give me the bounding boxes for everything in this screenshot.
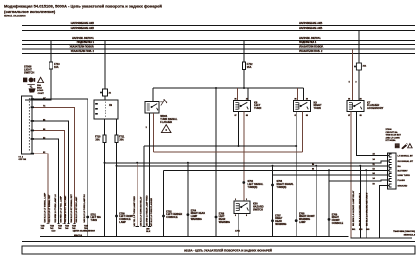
- svg-text:2: 2: [246, 199, 247, 201]
- svg-text:E706: E706: [219, 213, 225, 215]
- wire switch pin2 to x74.5 down: [34, 107, 75, 224]
- svg-text:AND LT CONN: AND LT CONN: [386, 136, 401, 139]
- node S703 right signal turn: [271, 184, 274, 187]
- warning triangle below flasher: [161, 125, 171, 133]
- svg-text:TURN: TURN: [314, 106, 321, 110]
- switch contact blob: [29, 88, 36, 92]
- svg-text:5: 5: [246, 215, 247, 217]
- wire x329 drop from H5: [328, 170, 330, 236]
- svg-text:86: 86: [312, 169, 314, 171]
- svg-text:LEFT: LEFT: [219, 216, 225, 218]
- bus B battery voltage: [22, 30, 415, 32]
- svg-text:REAR: REAR: [275, 220, 282, 223]
- ground bus right: [351, 237, 413, 239]
- svg-text:LEFT FRONT: LEFT FRONT: [119, 216, 134, 218]
- fuse F710 value label: [95, 136, 101, 142]
- svg-text:85: 85: [246, 115, 248, 117]
- light switch S7006 body: [22, 96, 33, 154]
- fuse F713: [49, 62, 52, 69]
- svg-text:SE/9015 -UN-10JAN03: SE/9015 -UN-10JAN03: [4, 14, 26, 17]
- relay K8 coil: [235, 103, 239, 110]
- svg-text:MAX: MAX: [37, 87, 42, 90]
- wire x366 drop from H5: [365, 170, 367, 238]
- svg-text:TM4574BM (15MAY03): TM4574BM (15MAY03): [393, 230, 415, 233]
- svg-text:НАПРЯЖЕНИЕ АКБ: НАПРЯЖЕНИЕ АКБ: [71, 22, 94, 25]
- svg-text:НАПРЯЖ. ВКЛЮЧ.: НАПРЯЖ. ВКЛЮЧ.: [72, 37, 94, 40]
- svg-text:LAMP: LAMP: [191, 215, 198, 218]
- connector block X7306 body: [388, 153, 397, 189]
- svg-text:E709: E709: [332, 214, 338, 216]
- svg-text:TAB: TAB: [50, 224, 55, 227]
- wire H3 to block pin2: [105, 161, 390, 163]
- wire switch pin3 to x68.5 down: [34, 121, 69, 224]
- relay K7 pin numbers: [348, 99, 361, 117]
- wire number ticks on x316: [312, 163, 315, 171]
- svg-text:SWITCH: SWITCH: [24, 70, 34, 74]
- svg-text:CONSOLE: CONSOLE: [332, 223, 344, 225]
- relay K30 coil: [236, 203, 240, 210]
- svg-text:530 RED 2.0 LT TAIL LAMP: 530 RED 2.0 LT TAIL LAMP: [60, 196, 63, 223]
- svg-text:УКАЗАТЕЛИ ПОВ. 2: УКАЗАТЕЛИ ПОВ. 2: [299, 50, 323, 53]
- block pin marks: [95, 103, 98, 115]
- svg-text:LAMP: LAMP: [299, 221, 306, 224]
- wire connector X1 to block: [104, 96, 106, 100]
- wire fuse F711 down: [116, 143, 118, 237]
- harness note text: [386, 129, 402, 142]
- fuse F713 value label: [54, 63, 60, 69]
- svg-text:BLK: BLK: [146, 231, 151, 233]
- svg-text:НАПРЯЖЕНИЕ АКБ: НАПРЯЖЕНИЕ АКБ: [299, 22, 322, 25]
- svg-text:534 BLK 2.0 RT SIGNAL RET: 534 BLK 2.0 RT SIGNAL RET: [70, 194, 73, 223]
- wire x137.2 drop from H3: [136, 163, 138, 227]
- svg-text:565 BLK 1.0 GROUND RETURN W: 565 BLK 1.0 GROUND RETURN W: [366, 193, 368, 226]
- svg-text:15A: 15A: [37, 84, 41, 87]
- svg-text:141 YEL 1.0 TURN LAMP FEED: 141 YEL 1.0 TURN LAMP FEED: [133, 196, 136, 227]
- relay K7 coil: [349, 103, 353, 110]
- warning triangle at light switch: [37, 76, 44, 83]
- junction H1/K9: [295, 145, 297, 147]
- node E709: [328, 218, 331, 221]
- wire block to fuse F710: [104, 119, 106, 135]
- node E708: [295, 219, 298, 222]
- wire fuse F710 down: [104, 143, 106, 237]
- svg-text:561 BRN 1.0 HAZARD LAMP RELAY: 561 BRN 1.0 HAZARD LAMP RELAY: [352, 190, 355, 226]
- svg-text:THIS IS AN EXT: THIS IS AN EXT: [386, 134, 402, 137]
- wire switch pin6 to x48 down: [34, 154, 48, 224]
- wire fuse F713 to switch corner: [25, 69, 51, 100]
- wire H4 to block pin3: [117, 165, 390, 167]
- svg-text:E702: E702: [166, 211, 172, 213]
- svg-text:FLASHER: FLASHER: [160, 121, 172, 124]
- svg-text:9015A - ЦЕПЬ УКАЗАТЕЛЕЙ ПОВОРО: 9015A - ЦЕПЬ УКАЗАТЕЛЕЙ ПОВОРОТА И ЗАДНИ…: [184, 249, 272, 253]
- node S702 left signal turn: [242, 181, 245, 184]
- svg-text:CONSOLE: CONSOLE: [166, 217, 178, 219]
- block pin labels: [398, 154, 414, 187]
- svg-text:87: 87: [235, 115, 237, 117]
- wire K8 pin87 down corner to x143: [144, 111, 239, 146]
- relay K8 pin numbers: [235, 99, 248, 117]
- svg-text:УКАЗАТЕЛИ ПОВ. 2: УКАЗАТЕЛИ ПОВ. 2: [71, 50, 95, 53]
- brown distribution wire H2: [153, 151, 302, 153]
- svg-text:(сигнальное исполнение): (сигнальное исполнение): [4, 9, 56, 14]
- node E700: [115, 215, 118, 218]
- svg-text:RIGHT FRONT: RIGHT FRONT: [299, 216, 315, 218]
- svg-text:TURN: TURN: [91, 220, 98, 222]
- svg-text:TAB: TAB: [84, 224, 89, 227]
- svg-text:521 BLK 2.0 LT SIGNAL RET: 521 BLK 2.0 LT SIGNAL RET: [48, 194, 51, 223]
- icon book: [395, 143, 400, 148]
- junction feed/E706 drop: [215, 87, 217, 89]
- svg-text:520 BLK 2.0 LT SIGNAL LAMP: 520 BLK 2.0 LT SIGNAL LAMP: [43, 192, 46, 222]
- switch lever arrow icon: [28, 85, 35, 88]
- relay K7 box: [347, 100, 364, 111]
- fuse F711 value label: [119, 136, 125, 142]
- wire K7 pin87 brown down to ground bus: [350, 111, 352, 238]
- wire bus B down to connector X14: [358, 31, 360, 64]
- svg-text:1: 1: [235, 199, 236, 201]
- svg-text:TAB: TAB: [65, 224, 70, 227]
- svg-text:86: 86: [348, 99, 350, 101]
- title block box: [22, 246, 415, 254]
- wire connector X14 to K7: [358, 70, 360, 100]
- junction H1/K8: [238, 145, 240, 147]
- svg-text:НАПРЯЖ. ВКЛЮЧ.: НАПРЯЖ. ВКЛЮЧ.: [299, 37, 321, 40]
- svg-text:RH SIGNAL BT: RH SIGNAL BT: [398, 160, 414, 163]
- svg-text:LAMP: LAMP: [119, 221, 126, 224]
- wire E702 drop from H5 corner: [163, 170, 165, 236]
- svg-text:LH SIGNAL BT: LH SIGNAL BT: [398, 154, 414, 157]
- svg-text:SE/9015A-8: SE/9015A-8: [404, 234, 416, 237]
- wire bus C down to fuse F712: [243, 41, 245, 63]
- fuse F711: [115, 135, 118, 143]
- relay K30 label: [253, 202, 264, 211]
- terminal ticks staircase wires: [46, 224, 151, 227]
- svg-text:CIRCUIT NA: CIRCUIT NA: [386, 131, 399, 134]
- svg-text:LOAD: LOAD: [37, 89, 44, 92]
- relay K9 pin numbers: [295, 99, 308, 117]
- relay K8 label: [254, 101, 261, 110]
- light switch icon cluster: [23, 78, 35, 83]
- svg-text:30: 30: [360, 99, 362, 101]
- svg-text:ЦЕПИ ЗАЗЕМЛЕНИЯ: ЦЕПИ ЗАЗЕМЛЕНИЯ: [73, 230, 96, 233]
- relay K30 pin numbers: [235, 199, 247, 217]
- svg-text:УКАЗАТЕЛИ ПОВОР.: УКАЗАТЕЛИ ПОВОР.: [70, 46, 95, 49]
- wire y88 to K8 pin86: [237, 88, 239, 100]
- svg-text:30: 30: [306, 99, 308, 101]
- svg-text:E700: E700: [119, 213, 125, 215]
- wire fuse F712 to y88 bus: [243, 69, 245, 88]
- wire switch pin4 to x64.3 down: [34, 131, 64, 224]
- svg-text:X7306: X7306: [386, 129, 393, 131]
- control unit block X9: [94, 100, 118, 119]
- light switch rating label: [37, 84, 44, 95]
- fuse F710: [103, 135, 106, 143]
- bus D accessory voltage: [22, 44, 415, 46]
- svg-text:RIGHT: RIGHT: [332, 217, 340, 219]
- wire K30 down to ground bus: [238, 213, 240, 236]
- svg-text:85: 85: [306, 115, 308, 117]
- svg-text:522 BRN 2.0 TURN LAMP LH: 522 BRN 2.0 TURN LAMP LH: [54, 194, 57, 223]
- relay K30 switch arm: [240, 206, 242, 208]
- svg-text:WARNING: WARNING: [219, 221, 230, 224]
- svg-text:RIGHT REAR: RIGHT REAR: [191, 212, 206, 215]
- svg-text:МАССА: МАССА: [74, 234, 82, 237]
- svg-text:GROUND: GROUND: [398, 185, 408, 187]
- svg-text:147 BLK 1.0 TURN FLASHER: 147 BLK 1.0 TURN FLASHER: [150, 197, 153, 226]
- wire flasher bottom black down: [149, 113, 151, 227]
- wire H6 to block pin5: [273, 174, 390, 176]
- wire bus E down to K7: [352, 49, 354, 100]
- relay WD01 switch arm: [151, 106, 153, 108]
- svg-text:536 BLK 2.0 RT SIG LAMP: 536 BLK 2.0 RT SIG LAMP: [75, 196, 78, 222]
- svg-text:WARNING: WARNING: [191, 218, 202, 221]
- relay K8 box: [233, 100, 250, 111]
- svg-text:86: 86: [295, 99, 297, 101]
- svg-text:CONSOLE: CONSOLE: [119, 219, 131, 221]
- svg-text:FLASH: FLASH: [398, 179, 406, 182]
- horizontal feed wire y88: [153, 87, 303, 89]
- relay K9 box: [293, 100, 310, 111]
- svg-text:RIGHT: RIGHT: [275, 218, 283, 220]
- svg-text:540 BLK 2.0 TURN LAMP RH: 540 BLK 2.0 TURN LAMP RH: [83, 194, 86, 223]
- wire flasher bottom brown to H2: [152, 113, 154, 152]
- icon warning triangle: [407, 143, 413, 149]
- svg-text:A701: A701: [235, 229, 241, 232]
- light switch S7006 label: [24, 64, 34, 74]
- icon hand/pen: [401, 144, 407, 149]
- wire switch pin1 to x87.7 down: [34, 99, 88, 237]
- wire E704 drop from H3: [187, 163, 189, 237]
- svg-text:LEFT SIG: LEFT SIG: [91, 217, 102, 219]
- wire flasher top pin to bus y88: [152, 88, 154, 102]
- wire number labels at block: [373, 154, 376, 186]
- junction dot H4 start: [116, 165, 118, 167]
- relay WD01 coil marks: [147, 104, 150, 110]
- junction dot H3 start: [104, 162, 106, 164]
- svg-text:145 GRN 1.0 REAR LAMP FEED: 145 GRN 1.0 REAR LAMP FEED: [145, 195, 148, 227]
- svg-text:TURN: TURN: [254, 106, 261, 110]
- svg-text:NA: NA: [398, 165, 402, 168]
- svg-text:86: 86: [235, 99, 237, 101]
- ground bus left: [40, 236, 349, 238]
- svg-text:20A: 20A: [95, 139, 100, 142]
- switch position labels below body: [19, 156, 27, 161]
- wire S703 drop from H4: [272, 166, 274, 237]
- wire block pin7 ground down: [379, 186, 389, 239]
- fuse F712: [242, 62, 245, 69]
- svg-text:ПОДСВЕТКА 1: ПОДСВЕТКА 1: [299, 41, 317, 44]
- relay K7 switch arm: [353, 105, 355, 107]
- bus E switched voltage: [22, 48, 415, 50]
- connector X1 on wire: [103, 89, 108, 96]
- connector X1 dot: [100, 92, 102, 94]
- bus C ignition voltage: [22, 40, 415, 42]
- flasher label WD01: [160, 115, 178, 124]
- relay WD01 flasher box: [145, 102, 159, 113]
- svg-text:НАПРЯЖЕНИЕ АКБ: НАПРЯЖЕНИЕ АКБ: [71, 27, 94, 30]
- svg-text:WARNING: WARNING: [275, 223, 286, 226]
- node E707: [271, 219, 274, 222]
- node E706: [215, 216, 218, 219]
- svg-text:E708: E708: [299, 213, 305, 215]
- K7 wire number labels: [349, 82, 358, 84]
- fuse F712 value label: [247, 63, 253, 69]
- frame line: [22, 241, 415, 243]
- wire y88 to K9 pin86: [296, 88, 298, 100]
- svg-text:CONT: CONT: [38, 93, 45, 95]
- flasher aux contact symbol: [160, 99, 166, 105]
- node E704: [187, 213, 190, 216]
- wire y88 to K8 pin30: [247, 88, 249, 100]
- wire x143.9 down: [143, 146, 145, 227]
- svg-text:E707: E707: [275, 215, 281, 217]
- svg-text:HIGH TURN: HIGH TURN: [398, 175, 411, 177]
- svg-text:E704: E704: [191, 209, 197, 212]
- svg-text:S701: S701: [91, 214, 97, 216]
- svg-text:OFF ON: OFF ON: [19, 159, 27, 161]
- wire K9 brown down to H2 corner: [302, 111, 304, 152]
- svg-text:15A: 15A: [54, 66, 59, 69]
- svg-text:3: 3: [235, 215, 236, 217]
- switch pins: [31, 98, 34, 154]
- svg-text:20A: 20A: [119, 139, 124, 142]
- svg-text:15A: 15A: [247, 66, 252, 69]
- wire H5 to block pin4: [164, 169, 390, 171]
- wire block to fuse F711: [116, 119, 118, 135]
- svg-text:LEFT FENDER: LEFT FENDER: [166, 214, 182, 216]
- wire switch pin5 to x58.5 down: [34, 139, 59, 224]
- wire y88 end to K9 pin30: [302, 88, 304, 100]
- wire bus C down to connector X1: [104, 41, 106, 90]
- switch pin wire number labels: [43, 98, 46, 154]
- svg-text:FRONT: FRONT: [332, 220, 341, 222]
- bus A unswitched battery: [22, 25, 415, 27]
- relay K7 label: [367, 101, 384, 110]
- wire x360 drop from H4: [359, 166, 361, 238]
- svg-text:НАПРЯЖЕНИЕ АКБ: НАПРЯЖЕНИЕ АКБ: [299, 27, 322, 30]
- wire x316 drop from H4: [315, 166, 317, 237]
- svg-text:87: 87: [348, 115, 350, 117]
- relay K9 label: [314, 101, 322, 110]
- svg-text:REAR: REAR: [219, 218, 226, 221]
- svg-text:ПОДСВЕТКА 1: ПОДСВЕТКА 1: [77, 41, 95, 44]
- svg-text:563 BLK 1.0 HAZARD GROUND R: 563 BLK 1.0 HAZARD GROUND R: [359, 192, 362, 226]
- wire K7 pin85 black to block pin1: [357, 111, 390, 155]
- wire y88 drop to E706 chain: [215, 88, 217, 237]
- svg-text:TURN(S): TURN(S): [248, 186, 258, 189]
- svg-text:85: 85: [360, 115, 362, 117]
- svg-text:143 BLK 1.0 TURN SIG RELAY: 143 BLK 1.0 TURN SIG RELAY: [140, 196, 143, 226]
- connector X14: [356, 63, 361, 70]
- svg-text:TAB: TAB: [58, 224, 63, 227]
- wire H7 x329 to block pin6: [329, 179, 389, 182]
- relay K30 hazard box: [234, 201, 250, 214]
- wire K9 pin87 black down to ground bus: [295, 111, 297, 236]
- relay K9 switch arm: [300, 105, 302, 107]
- svg-text:KIT 9015A: KIT 9015A: [386, 139, 397, 142]
- svg-text:WARNING: WARNING: [299, 218, 310, 221]
- wire K8 pin output brown down through S702 to K30: [243, 111, 245, 201]
- block pins: [389, 154, 391, 187]
- svg-text:TAB: TAB: [72, 224, 77, 227]
- svg-text:ACCESSORY: ACCESSORY: [367, 106, 384, 110]
- node E702: [162, 215, 165, 218]
- svg-text:TAB: TAB: [41, 224, 46, 227]
- wire bus C down to fuse F713: [50, 41, 52, 63]
- relay K9 coil: [295, 103, 299, 110]
- svg-text:BATTERY: BATTERY: [398, 169, 409, 172]
- wire H1 K8/K9 output: [144, 145, 296, 147]
- svg-text:УКАЗАТЕЛИ ПОВОР.: УКАЗАТЕЛИ ПОВОР.: [299, 46, 324, 49]
- svg-text:TURN(S): TURN(S): [277, 186, 287, 189]
- junction feed/fuse: [243, 87, 245, 89]
- svg-text:30: 30: [246, 99, 248, 101]
- node S701: [86, 216, 89, 219]
- relay K8 switch arm: [240, 105, 242, 107]
- svg-text:87: 87: [295, 115, 297, 117]
- svg-text:SWITCH: SWITCH: [253, 208, 263, 211]
- bus F lighting voltage: [22, 52, 415, 54]
- svg-text:532 BRN 2.0 RT TAIL LAMP: 532 BRN 2.0 RT TAIL LAMP: [64, 195, 67, 222]
